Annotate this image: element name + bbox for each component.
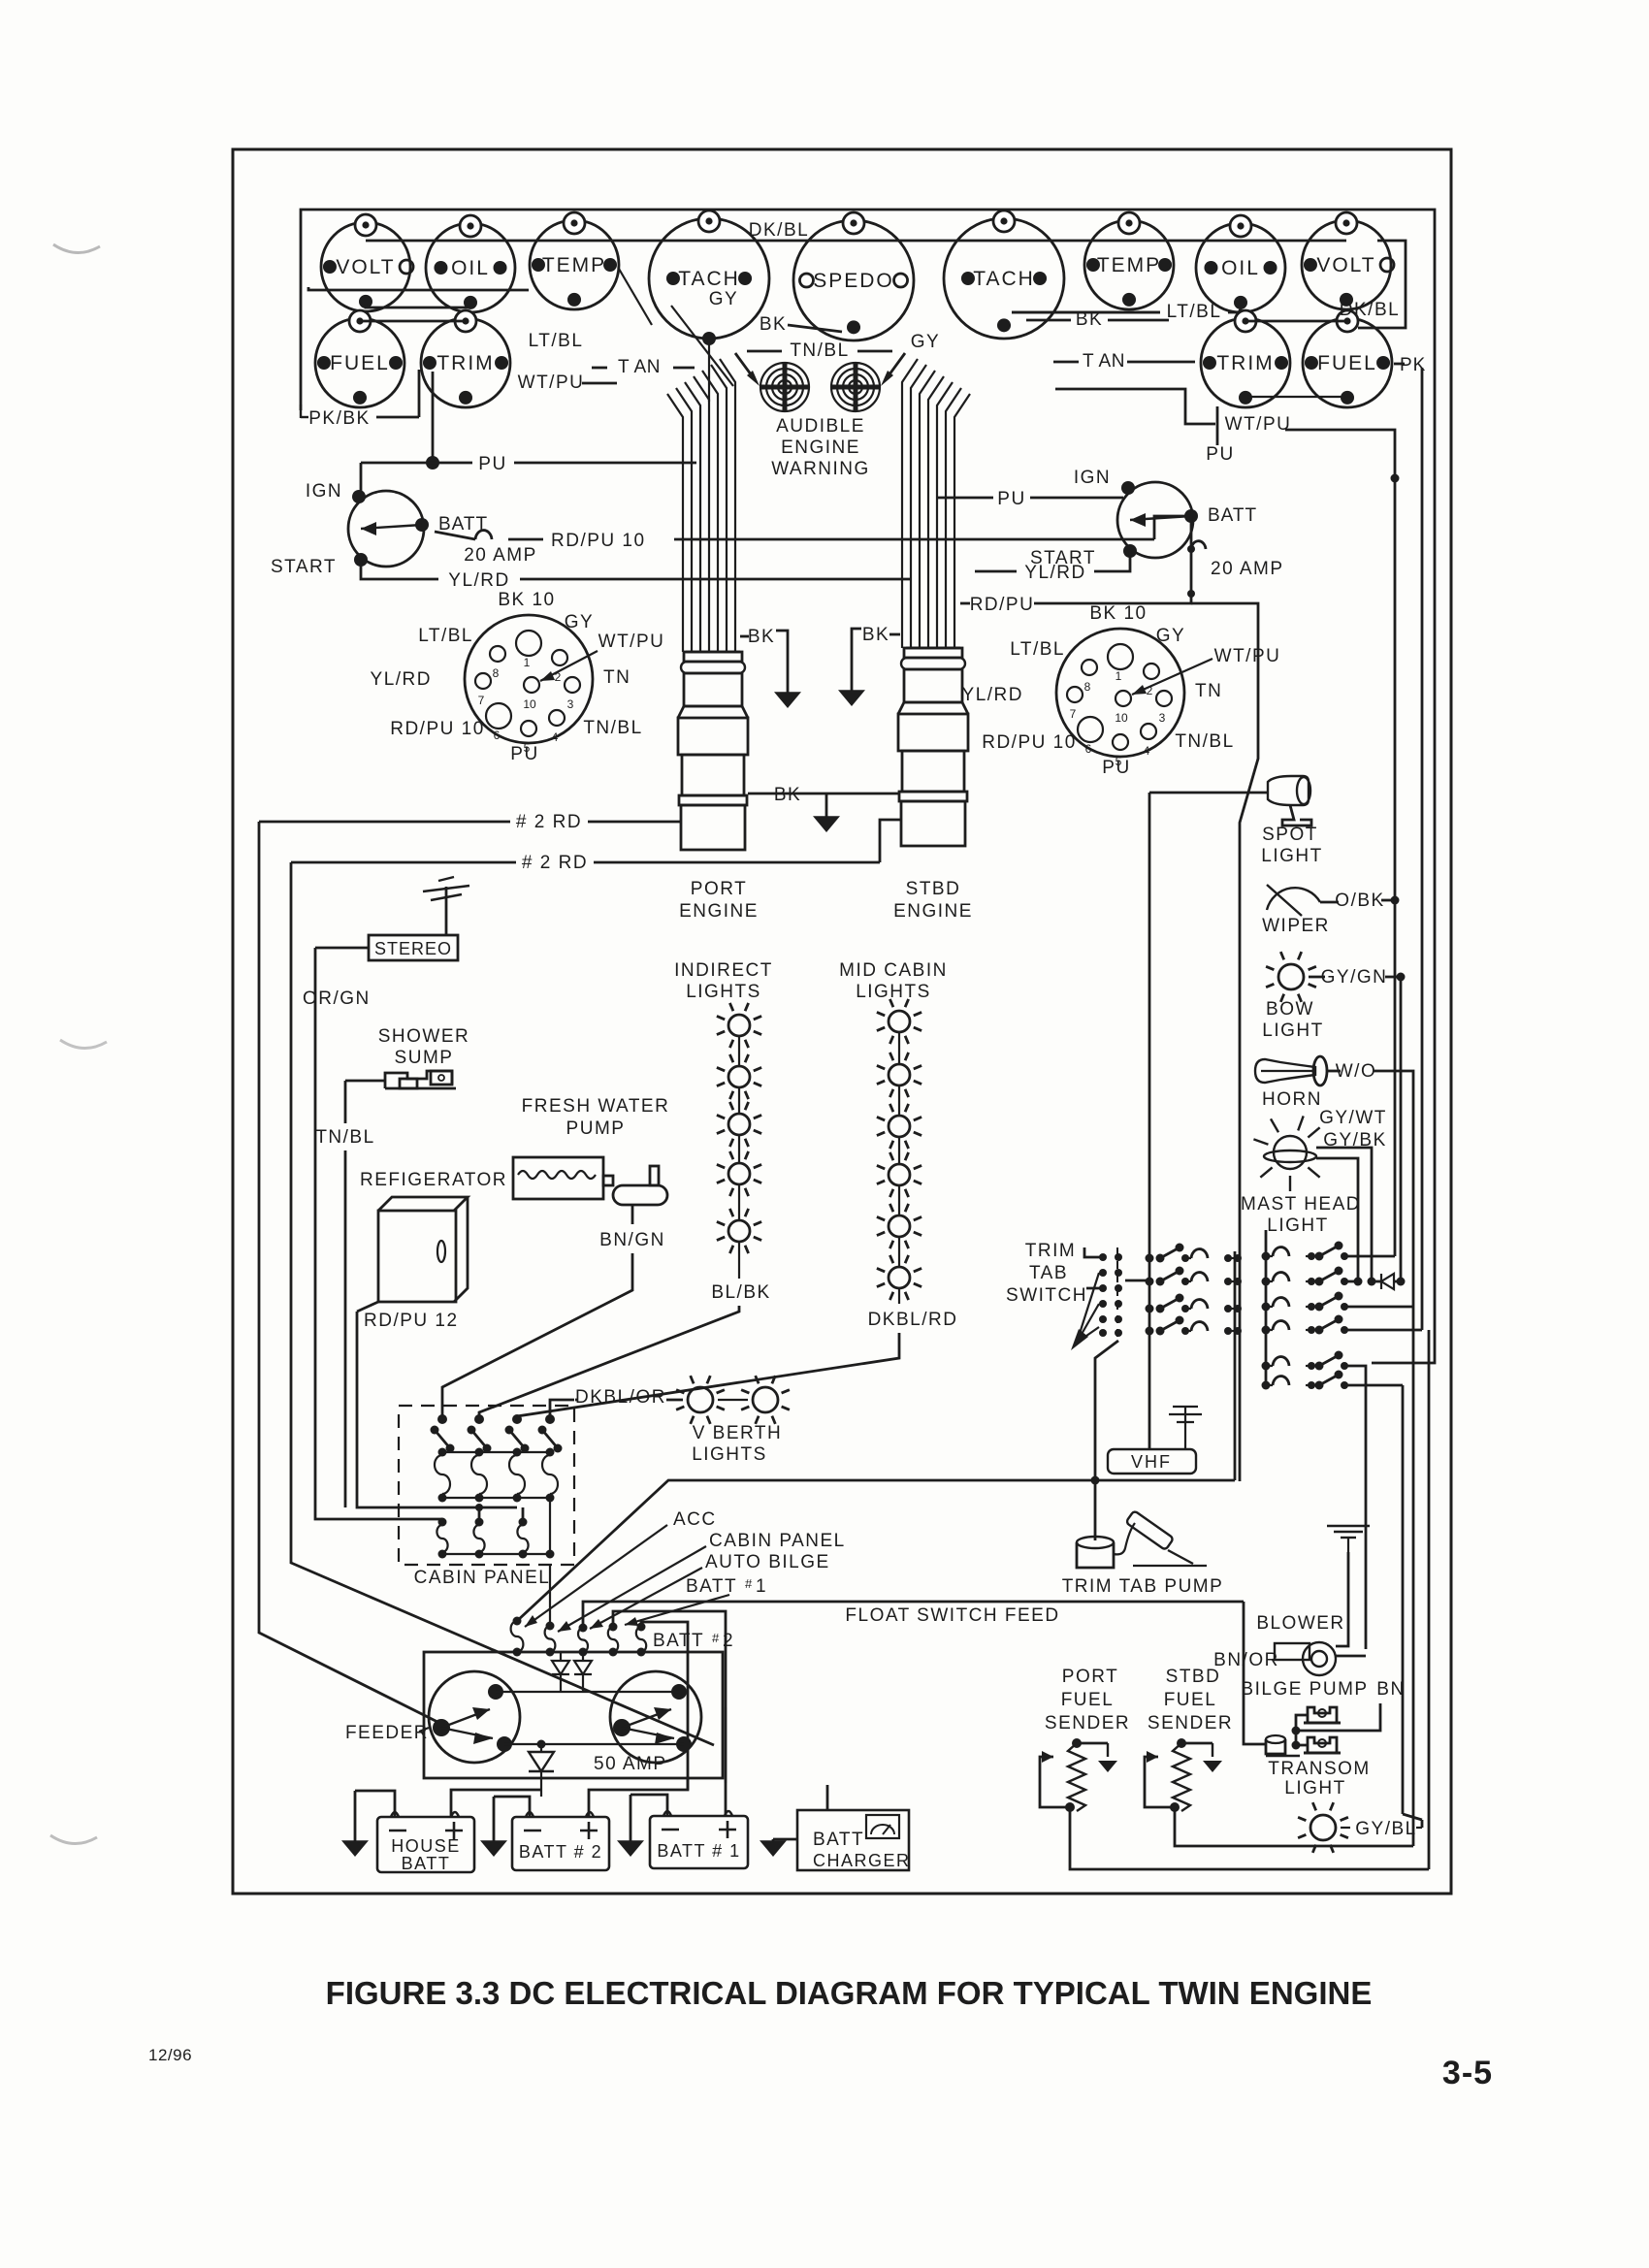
v berth lights	[676, 1376, 725, 1424]
wire RD/PU 12 refrigerator	[357, 1312, 517, 1507]
svg-text:LT/BL: LT/BL	[529, 331, 584, 351]
wire cabin panel feed drop	[549, 1565, 551, 1626]
svg-text:OIL: OIL	[451, 257, 490, 279]
feeder switch box	[424, 1652, 723, 1778]
wire 2RD jog to stbd connector	[880, 820, 900, 862]
svg-text:#: #	[745, 1576, 754, 1591]
svg-text:STBD: STBD	[1166, 1667, 1221, 1687]
svg-text:OIL: OIL	[1221, 257, 1260, 279]
svg-text:TRIM: TRIM	[1025, 1241, 1076, 1261]
svg-text:VOLT: VOLT	[336, 256, 395, 278]
svg-text:TEMP: TEMP	[542, 254, 606, 276]
transom light lamp	[1298, 1802, 1348, 1853]
audible warning buzzer port	[760, 363, 809, 411]
svg-text:REFIGERATOR: REFIGERATOR	[360, 1170, 507, 1190]
svg-text:FEEDER: FEEDER	[345, 1723, 429, 1743]
svg-text:MID CABIN: MID CABIN	[839, 960, 948, 981]
svg-text:#: #	[712, 1631, 721, 1645]
svg-text:8: 8	[1084, 680, 1091, 694]
bilge pump upper	[1308, 1707, 1337, 1723]
wire light chain drop right	[1358, 241, 1406, 328]
svg-text:RD/PU 10: RD/PU 10	[390, 719, 485, 739]
VHF wrap wires	[1234, 1251, 1237, 1480]
feeder switch stbd circle	[610, 1671, 701, 1763]
mast head light	[1274, 1136, 1307, 1169]
wire W/O	[1328, 1070, 1341, 1073]
wire YL/RD stbd	[1094, 551, 1130, 571]
wire LT/BL stbd	[1012, 311, 1160, 314]
svg-text:LT/BL: LT/BL	[418, 626, 473, 646]
VHF antenna	[1184, 1407, 1186, 1449]
svg-text:TN/BL: TN/BL	[583, 718, 642, 738]
trim tab pump	[1077, 1537, 1114, 1548]
svg-text:BN/GN: BN/GN	[599, 1230, 665, 1250]
svg-text:FUEL: FUEL	[330, 352, 390, 374]
ground BK between connectors	[748, 793, 899, 795]
wire ACC feed diagonal	[517, 1480, 1235, 1621]
svg-text:WT/PU: WT/PU	[518, 373, 585, 393]
svg-text:BK: BK	[760, 314, 787, 335]
svg-text:BATT: BATT	[653, 1631, 704, 1651]
svg-text:7: 7	[478, 694, 485, 707]
fuse 20 AMP stbd	[1190, 516, 1193, 549]
svg-text:IGN: IGN	[1074, 468, 1111, 488]
svg-text:6: 6	[1085, 742, 1092, 756]
svg-text:CHARGER: CHARGER	[813, 1851, 911, 1870]
svg-text:# 2 RD: # 2 RD	[516, 812, 582, 832]
svg-text:BL/BK: BL/BK	[711, 1282, 770, 1303]
svg-text:BK: BK	[774, 785, 801, 805]
svg-text:TN/BL: TN/BL	[1175, 731, 1234, 752]
svg-text:SENDER: SENDER	[1045, 1713, 1130, 1733]
wire O/BK	[1320, 901, 1339, 904]
svg-text:FIGURE 3.3 DC ELECTRICAL DIAGR: FIGURE 3.3 DC ELECTRICAL DIAGRAM FOR TYP…	[326, 1975, 1373, 2011]
svg-text:WT/PU: WT/PU	[598, 632, 665, 652]
svg-text:4: 4	[552, 730, 559, 744]
svg-text:STEREO: STEREO	[374, 939, 452, 958]
svg-text:6: 6	[494, 729, 501, 742]
svg-text:IGN: IGN	[306, 481, 342, 502]
svg-text:TRIM: TRIM	[1216, 352, 1274, 374]
svg-text:BK: BK	[862, 625, 889, 645]
wire bottom pins bus port	[366, 304, 470, 308]
svg-text:PORT: PORT	[1062, 1667, 1118, 1687]
gauge TACH (stbd)	[944, 211, 1064, 339]
feeder bottom bus	[504, 1743, 684, 1745]
svg-text:TN: TN	[1195, 681, 1222, 701]
svg-text:10: 10	[523, 697, 536, 711]
bilge wiring	[1296, 1715, 1308, 1731]
gauge OIL (port)	[426, 215, 515, 312]
wire BN/OR float	[1244, 1602, 1266, 1744]
svg-text:WT/PU: WT/PU	[1214, 646, 1281, 666]
svg-text:FUEL: FUEL	[1164, 1690, 1217, 1710]
feeder breakers row	[513, 1617, 522, 1626]
svg-text:3: 3	[1159, 711, 1166, 725]
svg-text:TN/BL: TN/BL	[315, 1127, 374, 1148]
svg-text:WIPER: WIPER	[1262, 916, 1330, 936]
svg-text:AUDIBLE: AUDIBLE	[776, 416, 865, 437]
wire gauge light chain top row	[366, 240, 1346, 243]
bow light	[1266, 952, 1316, 1002]
svg-text:ENGINE: ENGINE	[893, 901, 973, 922]
wire harness bundle stbd engine	[902, 359, 918, 648]
stbd fuel sender	[1177, 1738, 1186, 1748]
svg-text:50 AMP: 50 AMP	[594, 1754, 667, 1774]
gauge FUEL (stbd)	[1303, 310, 1392, 407]
wire FUEL/TRIM stbd light link	[1245, 320, 1347, 323]
lights switch bank	[1262, 1252, 1271, 1261]
gauge TRIM (stbd)	[1201, 310, 1290, 407]
wire #2 RD port	[588, 821, 682, 824]
svg-text:PU: PU	[510, 744, 538, 764]
svg-text:TRANSOM: TRANSOM	[1268, 1759, 1371, 1779]
svg-text:RD/PU 10: RD/PU 10	[551, 531, 646, 551]
ignition switch port	[348, 491, 424, 567]
svg-text:TACH: TACH	[973, 268, 1035, 290]
wire TEMP to bundle	[619, 269, 652, 325]
float switch feed wire	[583, 1602, 1244, 1628]
svg-text:GY: GY	[911, 332, 940, 352]
svg-text:10: 10	[1115, 711, 1128, 725]
wire DKBL/RD to cabin panel	[517, 1333, 899, 1419]
svg-text:SUMP: SUMP	[395, 1048, 454, 1068]
svg-text:SENDER: SENDER	[1148, 1713, 1233, 1733]
gauge SPEDO (center)	[793, 212, 914, 340]
svg-text:YL/RD: YL/RD	[962, 685, 1023, 705]
gauge TEMP (stbd)	[1084, 212, 1174, 309]
instrument panel outline	[301, 210, 1435, 410]
svg-text:PUMP: PUMP	[566, 1118, 626, 1139]
wire BL/BK to cabin panel	[479, 1306, 739, 1419]
svg-text:GY: GY	[709, 289, 738, 309]
wire cabin panel row B feeds	[441, 1519, 443, 1522]
svg-text:BK 10: BK 10	[1089, 603, 1147, 624]
svg-text:WT/PU: WT/PU	[1225, 414, 1292, 435]
wire TN/BL shower	[344, 1081, 347, 1123]
svg-text:TACH: TACH	[678, 268, 740, 290]
svg-text:RD/PU 12: RD/PU 12	[364, 1311, 459, 1331]
svg-text:2: 2	[723, 1631, 734, 1651]
battery ground arrows and wires	[355, 1791, 395, 1817]
svg-text:INDIRECT: INDIRECT	[674, 960, 773, 981]
wire RD/PU stbd	[1034, 594, 1191, 603]
wire buzzer feed	[735, 353, 754, 378]
svg-text:WARNING: WARNING	[771, 459, 870, 479]
svg-text:LIGHT: LIGHT	[1267, 1215, 1328, 1236]
ground top right	[1327, 1525, 1370, 1527]
stereo	[369, 935, 458, 960]
svg-text:YL/RD: YL/RD	[448, 570, 509, 591]
cabin panel dashed box	[399, 1406, 574, 1565]
svg-text:3: 3	[567, 697, 574, 711]
svg-text:FUEL: FUEL	[1317, 352, 1377, 374]
wire OR/GN stereo	[315, 948, 442, 1519]
battery charger	[797, 1810, 909, 1870]
svg-text:O/BK: O/BK	[1335, 891, 1384, 911]
svg-text:GY/WT: GY/WT	[1319, 1108, 1387, 1128]
svg-text:BN: BN	[1376, 1679, 1405, 1700]
svg-text:BK 10: BK 10	[498, 590, 555, 610]
50 AMP diode	[537, 1740, 546, 1749]
svg-text:GY/GN: GY/GN	[1321, 967, 1388, 988]
wire batt2 feed	[641, 1622, 688, 1790]
svg-text:DK/BL: DK/BL	[1340, 300, 1400, 320]
svg-text:HORN: HORN	[1262, 1089, 1322, 1110]
wire WT/PU stbd to right bus	[1285, 430, 1395, 1256]
svg-text:LIGHT: LIGHT	[1262, 1021, 1323, 1041]
wire batt1 feed	[613, 1611, 726, 1783]
VHF radio	[1108, 1449, 1196, 1474]
cabin panel breakers row B	[438, 1518, 447, 1527]
svg-text:TN: TN	[603, 667, 630, 688]
svg-text:BATT: BATT	[686, 1576, 737, 1597]
svg-text:PU: PU	[1102, 758, 1130, 778]
gauge VOLT (port)	[321, 214, 413, 311]
svg-text:GY: GY	[565, 612, 594, 632]
gauge TEMP (port)	[530, 212, 619, 309]
svg-text:BLOWER: BLOWER	[1256, 1613, 1344, 1634]
svg-text:ENGINE: ENGINE	[679, 901, 759, 922]
gauge VOLT (stbd)	[1302, 212, 1394, 309]
diode right	[1381, 1274, 1394, 1289]
wire harness bundle port engine	[667, 394, 683, 652]
wire #2 RD stbd	[594, 861, 880, 864]
audible warning buzzer stbd	[831, 363, 880, 411]
svg-text:W/O: W/O	[1336, 1061, 1377, 1082]
svg-text:V BERTH: V BERTH	[693, 1423, 783, 1443]
breaker bank accessory rows	[1146, 1254, 1154, 1263]
panel edge long drop	[1372, 373, 1435, 1363]
svg-text:YL/RD: YL/RD	[1024, 563, 1085, 583]
wire spot light feed	[1149, 792, 1268, 794]
svg-text:LIGHTS: LIGHTS	[692, 1444, 767, 1465]
svg-text:T AN: T AN	[1083, 351, 1125, 372]
gauge TACH (port)	[649, 211, 769, 339]
svg-text:STBD: STBD	[906, 879, 961, 899]
svg-text:4: 4	[1144, 744, 1150, 758]
wire PU to ignition port	[432, 372, 435, 463]
wire GY/GN	[1309, 976, 1325, 979]
svg-text:RD/PU: RD/PU	[970, 595, 1035, 615]
wire RD/PU 10 port	[674, 538, 1154, 541]
svg-text:VHF: VHF	[1131, 1452, 1172, 1472]
svg-text:LT/BL: LT/BL	[1167, 302, 1222, 322]
wire TACH GY to bundle	[671, 306, 733, 386]
svg-text:BATT # 2: BATT # 2	[519, 1842, 602, 1862]
svg-text:LIGHT: LIGHT	[1284, 1778, 1345, 1798]
svg-text:PORT: PORT	[691, 879, 747, 899]
ignition switch stbd	[1117, 482, 1193, 558]
horn	[1255, 1059, 1315, 1083]
svg-text:DK/BL: DK/BL	[749, 220, 809, 241]
svg-text:FLOAT SWITCH FEED: FLOAT SWITCH FEED	[845, 1605, 1059, 1626]
svg-text:DKBL/OR: DKBL/OR	[575, 1387, 666, 1408]
engine harness plug port	[465, 615, 593, 743]
svg-text:BK: BK	[748, 627, 775, 647]
page curl marks left margin	[53, 244, 100, 253]
battery BATT#1	[650, 1816, 748, 1868]
svg-text:VOLT: VOLT	[1316, 254, 1375, 276]
port fuel sender	[1072, 1738, 1082, 1748]
masthead drops to diode row	[1354, 1278, 1363, 1286]
svg-text:20 AMP: 20 AMP	[1211, 559, 1284, 579]
svg-text:8: 8	[493, 666, 500, 680]
engine connector port	[686, 651, 740, 654]
svg-text:PU: PU	[478, 454, 506, 474]
svg-text:1: 1	[524, 656, 531, 669]
svg-text:CABIN PANEL: CABIN PANEL	[414, 1568, 551, 1588]
page border frame	[233, 149, 1451, 1894]
svg-text:AUTO BILGE: AUTO BILGE	[705, 1552, 830, 1572]
svg-text:PU: PU	[1206, 444, 1234, 465]
svg-text:CABIN PANEL: CABIN PANEL	[709, 1531, 846, 1551]
wire left pins bus port	[308, 287, 529, 290]
wire 2RD batt bus	[291, 862, 714, 1745]
svg-text:BATT: BATT	[402, 1854, 451, 1873]
svg-text:YL/RD: YL/RD	[371, 669, 432, 690]
label arrows	[525, 1525, 667, 1627]
svg-text:START: START	[271, 557, 337, 577]
row wire outs	[1344, 1255, 1395, 1258]
svg-text:LIGHTS: LIGHTS	[856, 982, 931, 1002]
gauge TRIM (port)	[421, 310, 510, 407]
svg-text:1: 1	[1115, 669, 1122, 683]
gauge OIL (stbd)	[1196, 215, 1285, 312]
svg-text:ACC: ACC	[673, 1509, 717, 1530]
svg-text:# 2 RD: # 2 RD	[522, 853, 588, 873]
svg-text:SWITCH: SWITCH	[1006, 1285, 1087, 1306]
svg-text:SHOWER: SHOWER	[378, 1026, 470, 1047]
svg-text:BOW: BOW	[1266, 999, 1314, 1020]
svg-text:SPEDO: SPEDO	[813, 270, 894, 292]
svg-text:T AN: T AN	[618, 357, 661, 377]
engine connector stbd	[906, 647, 960, 650]
svg-text:12/96: 12/96	[148, 2046, 192, 2064]
float switch	[1266, 1735, 1285, 1743]
svg-text:FUEL: FUEL	[1061, 1690, 1115, 1710]
feeder interior feeds	[560, 1652, 562, 1661]
sender bottom wires	[1070, 1811, 1429, 1869]
svg-text:OR/GN: OR/GN	[303, 988, 371, 1009]
svg-text:TEMP: TEMP	[1097, 254, 1161, 276]
svg-text:LT/BL: LT/BL	[1010, 639, 1065, 660]
label PU stbd wire	[1216, 406, 1219, 445]
wire FUEL/TRIM port light link	[360, 320, 466, 323]
svg-text:BATT: BATT	[813, 1830, 864, 1850]
wiper	[1267, 888, 1320, 910]
isolator diodes	[552, 1661, 569, 1674]
junction trim pump wire	[1091, 1476, 1100, 1485]
svg-text:BILGE PUMP: BILGE PUMP	[1241, 1679, 1368, 1700]
wire YL/RD port	[361, 560, 438, 579]
svg-text:TRIM: TRIM	[436, 352, 494, 374]
svg-text:1: 1	[756, 1576, 767, 1597]
svg-text:TN/BL: TN/BL	[790, 340, 849, 361]
spot light	[1268, 776, 1309, 805]
battery BATT#2	[512, 1817, 609, 1870]
svg-text:7: 7	[1070, 707, 1077, 721]
svg-text:HOUSE: HOUSE	[391, 1836, 461, 1856]
svg-text:TAB: TAB	[1029, 1263, 1068, 1283]
svg-text:ENGINE: ENGINE	[781, 437, 860, 458]
svg-text:FRESH WATER: FRESH WATER	[522, 1096, 670, 1117]
svg-text:GY/BL: GY/BL	[1355, 1819, 1416, 1839]
engine harness plug stbd	[1056, 629, 1184, 757]
svg-text:BATT: BATT	[1208, 505, 1257, 526]
svg-text:TRIM TAB PUMP: TRIM TAB PUMP	[1062, 1576, 1224, 1597]
feeder switch port circle	[429, 1671, 520, 1763]
fuse 20 AMP port	[435, 532, 475, 539]
wires masthead	[1316, 1148, 1372, 1281]
svg-text:SPOT: SPOT	[1262, 825, 1318, 845]
svg-text:BATT # 1: BATT # 1	[657, 1841, 740, 1861]
feeder top bus	[496, 1691, 679, 1693]
wire BN/GN	[631, 1205, 634, 1224]
svg-text:PU: PU	[997, 489, 1025, 509]
battery HOUSE BATT	[377, 1817, 474, 1872]
svg-text:3-5: 3-5	[1442, 2055, 1493, 2091]
svg-text:MAST HEAD: MAST HEAD	[1241, 1194, 1361, 1215]
svg-text:GY: GY	[1156, 626, 1185, 646]
svg-text:BN/OR: BN/OR	[1213, 1650, 1279, 1670]
svg-text:PK/BK: PK/BK	[308, 408, 370, 429]
cabin panel breakers row A	[437, 1414, 447, 1424]
svg-text:RD/PU 10: RD/PU 10	[982, 732, 1077, 753]
bilge pump lower	[1308, 1737, 1337, 1753]
right side long verticals	[1412, 1307, 1415, 1846]
wire trim switch to pump	[1095, 1341, 1118, 1540]
svg-text:LIGHT: LIGHT	[1261, 846, 1322, 866]
svg-text:DKBL/RD: DKBL/RD	[868, 1310, 958, 1330]
svg-text:LIGHTS: LIGHTS	[686, 982, 761, 1002]
svg-text:20 AMP: 20 AMP	[464, 545, 537, 566]
wire 2RD house bus	[259, 822, 441, 1724]
gauge FUEL (port)	[315, 310, 404, 407]
bus masthead bank	[1265, 1230, 1268, 1385]
